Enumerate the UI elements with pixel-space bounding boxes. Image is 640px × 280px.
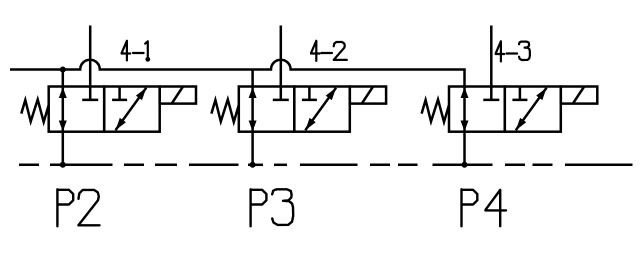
node: V1 to return line: [60, 162, 66, 168]
blocked port T in V3 right box: [512, 87, 527, 100]
crossover arrow in V2 right box: [305, 88, 336, 131]
crossover arrow in V1 right box: [116, 88, 147, 131]
dot under label 4-1 digit 1: [145, 57, 150, 62]
wire: return/exhaust dashed line: [19, 164, 633, 167]
label 4-1: [122, 41, 148, 61]
label 4-2: [311, 41, 347, 61]
flow arrow (vertical) in V3 left box: [461, 87, 469, 131]
solenoid of V1: [160, 87, 196, 104]
node: V2 to return line: [250, 162, 256, 168]
label P3: [251, 189, 294, 226]
valve V3 body (P4): [449, 87, 561, 132]
wire: pilot line 4-2: [280, 26, 283, 100]
blocked port T in V2 right box: [302, 87, 317, 100]
wire: pilot line 4-3: [490, 26, 493, 100]
blocked port T in V1 left box: [82, 99, 98, 102]
flow arrow (vertical) in V1 left box: [59, 87, 67, 131]
spring of V1: [21, 100, 48, 123]
crossover arrow in V3 right box: [516, 88, 547, 131]
spring of V2: [211, 100, 238, 123]
label P2: [57, 189, 99, 226]
solenoid of V2: [350, 87, 386, 104]
blocked port T in V3 left box: [483, 99, 499, 102]
node: V3 to return line: [462, 162, 468, 168]
wire: supply header with hops over pilot lines: [10, 60, 465, 165]
node: junction header/P2 feed: [60, 67, 66, 73]
wire: pilot line 4-1: [89, 26, 92, 100]
valve V2 body (P3): [239, 87, 350, 132]
wire: feed drop to valve P2: [62, 70, 65, 166]
valve V1 body (P2): [49, 87, 160, 132]
spring of V3: [422, 100, 449, 123]
wire: feed drop to valve P3: [251, 70, 254, 166]
blocked port T in V2 left box: [273, 99, 289, 102]
label 4-3: [496, 41, 530, 61]
label P4: [462, 189, 507, 226]
blocked port T in V1 right box: [112, 87, 127, 100]
flow arrow (vertical) in V2 left box: [249, 87, 257, 131]
solenoid of V3: [561, 87, 598, 104]
